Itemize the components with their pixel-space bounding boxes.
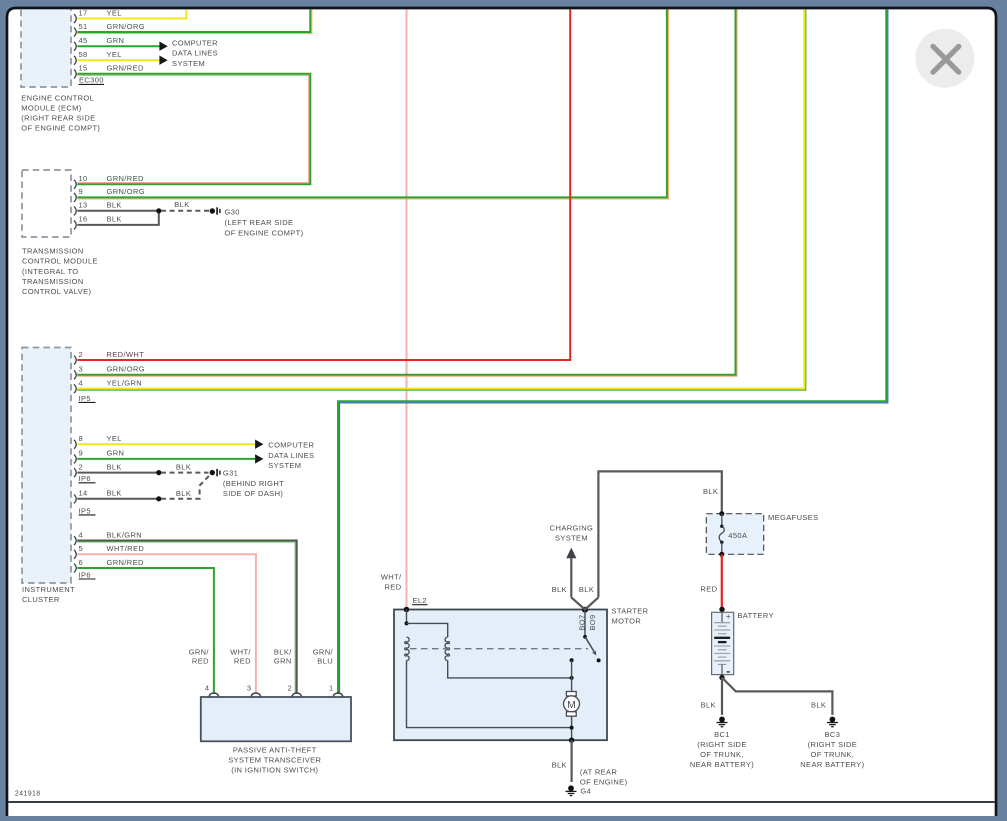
svg-text:YEL: YEL [107,50,122,59]
wire YEL from ECM pin 17 up to top [77,8,186,19]
dashed solenoid coupling line [410,648,588,650]
svg-text:MOTOR: MOTOR [612,617,642,626]
svg-text:INSTRUMENT: INSTRUMENT [22,585,75,594]
svg-text:4: 4 [205,683,210,692]
svg-text:M: M [567,699,576,711]
svg-text:GRN/RED: GRN/RED [107,558,144,567]
label IP5 connector id 2 [79,506,96,515]
svg-text:CONTROL MODULE: CONTROL MODULE [22,257,98,266]
label IP5 connector id [79,394,96,403]
svg-text:SIDE OF DASH): SIDE OF DASH) [223,489,283,498]
pin 3 GRN/ORG of instrument cluster [74,365,145,380]
wire BLK from starter to megafuses [598,471,721,597]
caption ground BC1 [690,730,754,769]
svg-text:BLK: BLK [552,585,567,594]
dashed BLK wire to ground G31 [161,472,209,474]
svg-text:14: 14 [79,489,88,498]
label IP6 connector id [79,474,96,483]
svg-text:10: 10 [79,174,88,183]
svg-text:GRN: GRN [107,36,125,45]
wire solenoid feed inside starter [406,610,408,624]
caption ground G4 at rear of engine [580,767,628,795]
wire BLK battery to ground BC3 [722,678,832,715]
label BLK/GRN wire [274,647,292,665]
pin 3 of transceiver [247,683,261,696]
connector instrument cluster (dashed box) [22,348,71,584]
svg-text:PASSIVE ANTI-THEFT: PASSIVE ANTI-THEFT [233,746,317,755]
svg-text:STARTER: STARTER [612,607,649,616]
pin 4 BLK/GRN of instrument cluster [74,530,142,545]
svg-text:SYSTEM: SYSTEM [268,461,301,470]
svg-text:15: 15 [79,64,88,73]
svg-text:4: 4 [79,530,84,539]
wire to pull-in coil [407,623,448,637]
svg-text:2: 2 [288,683,293,692]
svg-text:WHT/RED: WHT/RED [107,544,145,553]
svg-text:BLK: BLK [811,700,826,709]
wire GRN from ECM pin 45 to computer data lines arrow [77,45,159,47]
svg-text:EC300: EC300 [79,76,104,85]
label EC300 [79,76,105,85]
pin 15 GRN/RED of ECM [74,64,144,79]
label GRN/RED wire [189,647,210,665]
label computer data lines system (ECM) [172,38,218,68]
svg-text:NEAR BATTERY): NEAR BATTERY) [690,760,754,769]
pin 45 GRN of ECM [74,36,124,51]
svg-text:GRN/: GRN/ [189,647,210,656]
starter motor box [394,610,607,741]
ground G30 [210,207,220,214]
pin 14 BLK of instrument cluster [74,489,122,504]
svg-text:SYSTEM: SYSTEM [172,59,205,68]
svg-text:3: 3 [79,365,84,374]
svg-text:(IN IGNITION SWITCH): (IN IGNITION SWITCH) [231,765,318,774]
svg-text:BATTERY: BATTERY [737,611,774,620]
svg-text:NEAR BATTERY): NEAR BATTERY) [800,760,864,769]
svg-text:8: 8 [79,434,84,443]
pin 13 BLK of TCM [74,201,122,216]
svg-text:G4: G4 [580,787,591,796]
caption ground BC3 [800,730,864,769]
svg-text:MODULE (ECM): MODULE (ECM) [21,104,82,113]
svg-text:SYSTEM: SYSTEM [555,534,588,543]
fuse 450A [719,511,724,557]
svg-text:GRN/RED: GRN/RED [107,174,144,183]
wire BLK V into starter BO7/BO9 [571,597,598,609]
wire BLK from TCM pin 13 to junction [77,210,159,212]
svg-text:GRN/: GRN/ [313,647,334,656]
caption engine control module [21,93,100,132]
connector EC300 engine control module (dashed box) [21,1,71,87]
svg-text:OF ENGINE): OF ENGINE) [580,777,628,786]
svg-text:13: 13 [79,201,88,210]
node starter ground exit [569,738,574,743]
svg-text:2: 2 [79,462,84,471]
wire RED/WHT from cluster pin 2 up to top [77,8,570,361]
svg-text:51: 51 [79,22,88,31]
svg-text:BLK: BLK [176,463,191,472]
caption ground G30 left rear side of engine compt [225,208,304,238]
wire BLK from cluster pin 2 to junction [77,472,159,474]
svg-text:BO7: BO7 [577,614,586,630]
svg-text:BC3: BC3 [825,730,841,739]
solenoid hold-in coil L1 [405,637,409,661]
label IP6 connector id 2 [79,570,96,579]
svg-text:CLUSTER: CLUSTER [22,595,60,604]
svg-text:WHT/: WHT/ [230,647,251,656]
junction node cluster pin 2 BLK [156,470,161,475]
svg-text:RED/WHT: RED/WHT [107,350,145,359]
svg-text:CHARGING: CHARGING [550,523,593,532]
svg-text:RED: RED [192,657,209,666]
wire RED from megafuses to battery [721,554,723,609]
svg-text:IP6: IP6 [79,474,91,483]
label EL2 [412,596,428,605]
svg-text:BLK: BLK [176,489,191,498]
svg-text:450A: 450A [728,531,747,540]
junction node contact rail [570,676,574,680]
label WHT/RED vertical wire [381,572,402,591]
svg-text:(INTEGRAL TO: (INTEGRAL TO [22,267,79,276]
svg-text:GRN/RED: GRN/RED [107,64,144,73]
arrow to computer data lines system (cluster) [255,440,263,449]
svg-text:BLK/GRN: BLK/GRN [107,530,143,539]
wire BLK to charging system [570,557,572,598]
svg-text:BLK: BLK [703,487,718,496]
wire BLK from cluster pin 14 to junction [77,498,159,500]
svg-text:BC1: BC1 [714,730,730,739]
svg-text:BLK: BLK [579,585,594,594]
wire GRN/ORG from TCM pin 9 up to top right [77,8,668,199]
svg-text:GRN: GRN [107,449,125,458]
wire WHT/RED from top down to starter motor EL2 [406,8,408,610]
wire GRN/ORG from ECM pin 51 up to top [77,8,311,34]
arrow 2 to computer data lines system (ECM) [159,56,167,65]
arrow 2 to computer data lines system (cluster) [255,454,263,463]
inner bottom border line [8,801,995,803]
node switch upper contact [570,658,574,662]
svg-text:MEGAFUSES: MEGAFUSES [768,513,819,522]
svg-text:45: 45 [79,36,88,45]
svg-text:TRANSMISSION: TRANSMISSION [22,247,84,256]
caption passive anti-theft system transceiver [228,746,321,775]
svg-text:YEL/GRN: YEL/GRN [107,378,143,387]
ground G4 [566,785,577,795]
node EL2 entry on starter motor [404,607,410,613]
connector transmission control module (dashed box) [22,170,71,237]
svg-text:BLU: BLU [317,657,333,666]
junction node TCM ground wires [156,208,161,213]
pin 16 BLK of TCM [74,215,122,230]
svg-text:COMPUTER: COMPUTER [172,38,218,47]
wire BLK from TCM pin 16 to junction [77,211,159,225]
pin 10 GRN/RED of TCM [74,174,144,189]
wire switch contact to motor [571,660,573,692]
ground G31 [210,469,220,476]
svg-text:IP5: IP5 [79,506,91,515]
junction node bottom rail [570,726,574,730]
svg-text:YEL: YEL [107,434,122,443]
ground BC1 [717,717,728,727]
svg-text:2: 2 [79,350,84,359]
svg-text:58: 58 [79,50,88,59]
wire BLK starter to ground G4 [570,740,572,782]
svg-text:241918: 241918 [15,790,41,797]
node battery negative terminal [719,675,724,680]
wire hold-in coil to motor bottom rail [407,661,572,728]
label computer data lines system (cluster) [268,440,314,470]
wire motor to bottom of box [571,716,573,740]
svg-text:BLK: BLK [174,200,189,209]
label GRN/BLU wire [313,647,334,665]
svg-text:(RIGHT SIDE: (RIGHT SIDE [697,740,746,749]
svg-text:(RIGHT SIDE: (RIGHT SIDE [808,740,857,749]
wire GRN/BLU from transceiver pin 1 up and right to top [338,8,888,695]
svg-text:BLK: BLK [107,215,122,224]
pin 5 WHT/RED of instrument cluster [74,544,144,559]
wire YEL from cluster pin 8 to computer data lines arrow [77,443,255,445]
wire GRN from cluster pin 9 to computer data lines arrow [77,458,255,460]
pin 17 YEL of ECM [74,8,122,23]
wire YEL from ECM pin 58 to computer data lines arrow [77,59,159,61]
wire WHT/RED from cluster pin 5 to transceiver pin 3 [77,554,256,694]
svg-text:BLK: BLK [107,462,122,471]
pin 58 YEL of ECM [74,50,122,65]
svg-text:DATA LINES: DATA LINES [172,49,218,58]
svg-text:BLK: BLK [107,201,122,210]
node battery positive terminal [719,607,724,612]
svg-text:GRN: GRN [274,657,292,666]
svg-text:DATA LINES: DATA LINES [268,451,314,460]
svg-text:9: 9 [79,187,84,196]
svg-text:COMPUTER: COMPUTER [268,440,314,449]
svg-text:ENGINE CONTROL: ENGINE CONTROL [21,93,94,102]
svg-text:1: 1 [329,683,334,692]
pin 9 GRN/ORG of TCM [74,187,145,202]
svg-text:OF TRUNK,: OF TRUNK, [811,750,855,759]
svg-text:GRN/ORG: GRN/ORG [107,187,146,196]
svg-text:OF ENGINE COMPT): OF ENGINE COMPT) [225,228,304,237]
pin 2 BLK of instrument cluster [74,462,122,477]
caption instrument cluster [22,585,75,604]
pin 9 GRN of instrument cluster [74,449,124,464]
svg-text:6: 6 [79,558,84,567]
pin 8 YEL of instrument cluster [74,434,122,449]
solenoid pull-in coil L2 [445,637,449,661]
svg-text:BLK: BLK [701,700,716,709]
svg-text:SYSTEM TRANSCEIVER: SYSTEM TRANSCEIVER [228,756,321,765]
svg-text:3: 3 [247,683,252,692]
wire GRN/RED from ECM pin 15 to TCM pin 10 [77,74,310,184]
svg-text:IP6: IP6 [79,570,91,579]
wire pull-in coil to switch contact rail [448,661,572,678]
svg-text:G31: G31 [223,469,238,478]
caption charging system [550,523,593,542]
solenoid switch blade (open) [582,607,601,663]
svg-text:RED: RED [700,584,717,593]
svg-text:WHT/: WHT/ [381,572,402,581]
svg-text:BO9: BO9 [588,614,597,630]
ground BC3 [827,717,838,727]
svg-text:(BEHIND RIGHT: (BEHIND RIGHT [223,479,284,488]
svg-text:G30: G30 [225,208,240,217]
caption ground G31 behind right side of dash [223,469,284,498]
svg-text:(LEFT REAR SIDE: (LEFT REAR SIDE [225,218,294,227]
svg-text:+: + [726,612,731,621]
pin 2 of transceiver [288,683,302,696]
arrow up to charging system [566,548,576,559]
pin 2 RED/WHT of instrument cluster [74,350,144,365]
wire GRN/ORG from cluster pin 3 up to top [77,8,737,377]
caption transmission control module [22,247,98,296]
svg-text:(AT REAR: (AT REAR [580,767,618,776]
svg-text:CONTROL VALVE): CONTROL VALVE) [22,287,91,296]
label WHT/RED wire [230,647,251,665]
svg-text:TRANSMISSION: TRANSMISSION [22,277,84,286]
svg-text:IP5: IP5 [79,394,91,403]
pin 51 GRN/ORG of ECM [74,22,145,37]
wire GRN/RED from cluster pin 6 to transceiver pin 4 [77,568,214,694]
svg-text:5: 5 [79,544,84,553]
svg-text:BLK/: BLK/ [274,647,292,656]
motor M armature [564,692,580,717]
junction node cluster pin 14 BLK [156,496,161,501]
svg-text:RED: RED [385,583,402,592]
svg-text:BLK: BLK [552,761,567,770]
pin 6 GRN/RED of instrument cluster [74,558,144,573]
pin 1 of transceiver [329,683,343,696]
arrow to computer data lines system (ECM) [159,42,167,51]
passive anti-theft system transceiver box [201,697,351,741]
svg-text:17: 17 [79,8,88,17]
svg-text:GRN/ORG: GRN/ORG [107,22,146,31]
svg-text:RED: RED [234,657,251,666]
svg-text:EL2: EL2 [413,596,428,605]
svg-text:OF TRUNK,: OF TRUNK, [700,750,744,759]
svg-text:9: 9 [79,449,84,458]
wire YEL/GRN from cluster pin 4 up to top [77,8,806,391]
close button [915,29,974,88]
svg-text:YEL: YEL [107,8,122,17]
caption starter motor [612,607,649,626]
dashed BLK wire from pin 14 joining ground G31 [161,475,210,499]
pin 4 YEL/GRN of instrument cluster [74,378,142,393]
megafuses box (dashed) [706,514,763,555]
svg-text:4: 4 [79,378,84,387]
wire BLK/GRN from cluster pin 4 to transceiver pin 2 [77,541,296,695]
junction node solenoid coils [405,621,409,625]
dashed BLK wire to ground G30 [161,210,209,212]
wire BLK battery to ground BC1 [721,678,723,715]
pin 4 of transceiver [205,683,219,696]
svg-text:GRN/ORG: GRN/ORG [107,365,146,374]
svg-text:BLK: BLK [107,489,122,498]
svg-text:16: 16 [79,215,88,224]
battery [712,612,734,674]
svg-text:(RIGHT REAR SIDE: (RIGHT REAR SIDE [21,114,95,123]
svg-text:OF ENGINE COMPT): OF ENGINE COMPT) [21,124,100,133]
